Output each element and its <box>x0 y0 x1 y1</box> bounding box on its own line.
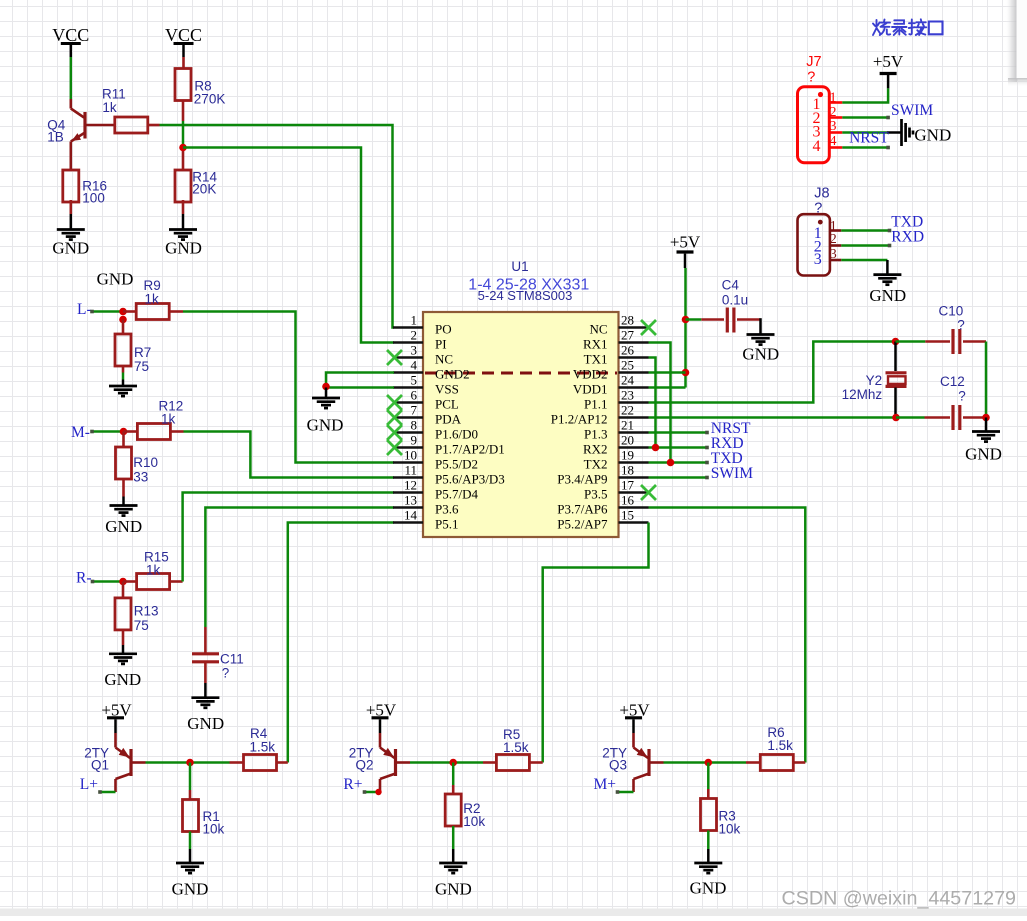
resistor R13 <box>115 598 131 630</box>
ground below R16 <box>70 214 73 230</box>
pin 24 VDD1 <box>619 386 649 389</box>
svg-text:P3.7/AP6: P3.7/AP6 <box>557 502 608 517</box>
pin 25 VDD2 <box>619 371 649 374</box>
svg-text:0.1u: 0.1u <box>722 293 748 308</box>
svg-text:P5.5/D2: P5.5/D2 <box>435 457 478 472</box>
svg-text:11: 11 <box>404 463 417 478</box>
junction RXD node <box>652 444 660 452</box>
base lead Q4 to R11 <box>85 124 115 127</box>
svg-text:+5V: +5V <box>873 52 904 71</box>
svg-text:P5.6/AP3/D3: P5.6/AP3/D3 <box>435 472 505 487</box>
bottom edge strip <box>0 909 1027 917</box>
svg-text:TX2: TX2 <box>584 457 608 472</box>
lead R4 left <box>230 761 244 764</box>
svg-text:10k: 10k <box>719 821 741 836</box>
lead R6 right <box>793 761 805 764</box>
junction +5V VDD2 node <box>682 369 690 377</box>
lead R2 top <box>452 785 455 794</box>
pin 5 VSS <box>393 386 423 389</box>
svg-text:R13: R13 <box>134 604 159 619</box>
pin 21 P1.3 <box>619 431 649 434</box>
ground below C11 <box>204 683 207 698</box>
wire R12 to U1 pin11 <box>184 432 395 478</box>
wire Q1 node to R1 <box>189 763 192 791</box>
ground J7 sideways <box>887 131 901 134</box>
wire VCC to Q4 collector <box>70 57 73 99</box>
wire pin22 to crystal bottom rail <box>649 416 897 419</box>
wire pin26 to RXD row <box>649 358 656 448</box>
svg-text:?: ? <box>222 666 230 681</box>
wire R- <box>93 580 124 583</box>
junction crystal bottom node <box>892 414 900 422</box>
pin 15 P5.2/AP7 <box>619 521 649 524</box>
base lead Q2 <box>396 761 411 764</box>
pin1 marker J7 <box>818 92 823 97</box>
resistor R11 <box>115 117 148 133</box>
svg-text:1.5k: 1.5k <box>250 739 276 754</box>
svg-text:GND: GND <box>914 125 951 144</box>
resistor R7 <box>115 334 131 366</box>
wire R11 to U1 pin1 <box>160 125 395 328</box>
resistor R5 <box>496 755 529 771</box>
svg-text:24: 24 <box>621 373 635 388</box>
junction Q1 node <box>186 759 194 767</box>
J7 pin lead 4 <box>829 146 842 149</box>
J7 pin lead 3 <box>829 131 842 134</box>
svg-text:2: 2 <box>411 328 418 343</box>
wire C10 to C12 <box>985 342 988 418</box>
wire J8 pin1 TXD <box>841 229 889 232</box>
svg-text:1k: 1k <box>145 291 160 306</box>
wire L- <box>92 310 123 313</box>
svg-text:22: 22 <box>621 403 634 418</box>
wire +5V to pin25 <box>649 371 686 374</box>
svg-text:P5.1: P5.1 <box>435 517 458 532</box>
wire crystal rail to C10 <box>896 340 926 343</box>
lead M- to R12 <box>124 430 138 433</box>
svg-text:GND: GND <box>172 880 209 899</box>
svg-text:GND: GND <box>435 880 472 899</box>
wire pin19 TXD <box>649 461 708 464</box>
lead R9 right <box>169 310 183 313</box>
svg-text:6: 6 <box>411 388 418 403</box>
pin 13 P3.6 <box>393 506 423 509</box>
resistor R16 <box>63 170 79 202</box>
no-connect X left <box>387 350 402 365</box>
ground below R14 <box>182 214 185 230</box>
wire J8 pin3 to ground <box>841 259 887 262</box>
wire Q3 base to R6 <box>664 761 747 764</box>
svg-text:23: 23 <box>621 388 634 403</box>
svg-text:NC: NC <box>435 352 453 367</box>
base lead Q3 <box>649 761 664 764</box>
svg-text:P1.6/D0: P1.6/D0 <box>435 427 478 442</box>
svg-text:12: 12 <box>404 478 417 493</box>
svg-text:PCL: PCL <box>435 397 459 412</box>
svg-text:GND: GND <box>307 416 344 435</box>
svg-text:3: 3 <box>814 251 822 268</box>
junction L- node <box>119 308 127 316</box>
junction +5V C4 node <box>682 316 690 324</box>
svg-text:CSDN @weixin_44571279: CSDN @weixin_44571279 <box>782 888 1017 910</box>
no-connect X left <box>387 410 402 425</box>
svg-text:NRST: NRST <box>849 130 889 147</box>
svg-text:Y2: Y2 <box>866 373 883 388</box>
wire pin23 to crystal rail <box>649 342 896 403</box>
svg-text:14: 14 <box>404 508 418 523</box>
svg-text:1k: 1k <box>102 100 117 115</box>
svg-text:P5.2/AP7: P5.2/AP7 <box>557 517 608 532</box>
svg-text:GND: GND <box>105 517 142 536</box>
wire to C4 <box>686 318 702 321</box>
svg-text:GND: GND <box>965 445 1002 464</box>
wire M- <box>92 430 124 433</box>
lead R6 left <box>746 761 760 764</box>
wire to C12 <box>896 416 925 419</box>
lead R14 bottom <box>182 200 185 214</box>
svg-text:?: ? <box>814 200 822 216</box>
lead R1 top <box>189 790 192 800</box>
top right panel <box>1005 0 1017 82</box>
J8 pin lead 3 <box>830 259 841 262</box>
junction TXD node <box>667 459 675 467</box>
junction Q2 node <box>449 759 457 767</box>
pin 22 P1.2/AP12 <box>619 416 649 419</box>
junction M- node <box>120 428 128 436</box>
lead R11 right <box>148 124 160 127</box>
svg-text:PO: PO <box>435 322 452 337</box>
svg-text:5-24 STM8S003: 5-24 STM8S003 <box>478 288 573 303</box>
svg-text:J8: J8 <box>814 186 829 202</box>
no-connect X right <box>641 320 656 335</box>
svg-text:GND: GND <box>869 286 906 305</box>
svg-text:15: 15 <box>621 508 634 523</box>
pin 20 RX2 <box>619 446 649 449</box>
lead VCC to R8 <box>182 57 185 69</box>
wire Q2 node to R2 <box>452 763 455 786</box>
svg-text:L-: L- <box>77 301 92 318</box>
svg-text:1.5k: 1.5k <box>503 740 529 755</box>
pin 28 NC <box>619 326 649 329</box>
wire +5V to pin24 <box>649 386 686 389</box>
svg-text:19: 19 <box>621 448 634 463</box>
svg-text:1.5k: 1.5k <box>767 738 793 753</box>
wire R15 to U1 pin12 <box>183 493 394 582</box>
svg-text:L+: L+ <box>80 776 98 793</box>
svg-text:5: 5 <box>411 373 418 388</box>
svg-text:9: 9 <box>411 433 418 448</box>
wire R9 to U1 pin10 <box>183 312 394 463</box>
resistor R9 <box>136 304 169 320</box>
wire U1 pin16 to R6 <box>649 508 806 763</box>
svg-text:P5.7/D4: P5.7/D4 <box>435 487 478 502</box>
pin 26 TX1 <box>619 356 649 359</box>
wire R+ stub <box>365 791 381 794</box>
J8 pin lead 1 <box>830 229 841 232</box>
svg-text:7: 7 <box>411 403 418 418</box>
svg-text:U1: U1 <box>511 259 528 274</box>
resistor R3 <box>701 799 717 831</box>
power +5V J7 <box>887 75 890 88</box>
svg-text:27: 27 <box>621 328 635 343</box>
svg-text:R+: R+ <box>343 776 362 793</box>
wire Q2 base to R5 <box>410 761 483 764</box>
junction R- node <box>119 578 127 586</box>
ground below C4 <box>759 318 762 334</box>
wire L+ stub <box>100 791 116 794</box>
lead to R10 <box>122 432 125 448</box>
wire J7 pin2 SWIM <box>842 116 888 119</box>
svg-text:VDD1: VDD1 <box>573 382 608 397</box>
svg-text:4: 4 <box>411 358 418 373</box>
pin 9 P1.7/AP2/D1 <box>393 446 423 449</box>
wire U1 pin15 to R5 <box>543 523 649 763</box>
ground below R13 <box>122 630 125 645</box>
svg-text:28: 28 <box>621 313 634 328</box>
junction Q3 node <box>705 759 713 767</box>
lead junction to R14 <box>182 149 185 170</box>
svg-text:10: 10 <box>404 448 417 463</box>
lead R4 right <box>277 761 288 764</box>
lead R5 right <box>529 761 542 764</box>
ground below R1 <box>189 832 192 850</box>
svg-text:8: 8 <box>411 418 418 433</box>
wire pin27 to TXD row <box>649 343 671 463</box>
wire Q3 node to R3 <box>707 763 710 790</box>
resistor R10 <box>116 447 132 479</box>
junction R8/R14 node <box>179 144 187 152</box>
connector J7 <box>798 87 830 163</box>
lead R8 bottom <box>182 101 185 122</box>
svg-text:SWIM: SWIM <box>891 102 933 119</box>
svg-text:P3.4/AP9: P3.4/AP9 <box>557 472 607 487</box>
junction C12 right node <box>982 414 990 422</box>
ground below R10 <box>122 479 125 497</box>
svg-text:?: ? <box>807 69 815 85</box>
svg-text:GND2: GND2 <box>435 367 470 382</box>
lead R- to R15 <box>123 580 137 583</box>
svg-text:P1.2/AP12: P1.2/AP12 <box>551 412 608 427</box>
svg-text:Q1: Q1 <box>91 758 109 773</box>
resistor R15 <box>137 574 170 590</box>
svg-text:20: 20 <box>621 433 634 448</box>
lead L- to R9 <box>123 310 136 313</box>
svg-text:75: 75 <box>134 359 149 374</box>
pin 10 P5.5/D2 <box>393 461 423 464</box>
svg-text:C12: C12 <box>940 374 965 389</box>
pin 2 PI <box>393 341 423 344</box>
svg-text:100: 100 <box>82 190 105 205</box>
J8 pin lead 2 <box>830 244 841 247</box>
svg-text:PDA: PDA <box>435 412 462 427</box>
wire J8 pin2 RXD <box>841 244 889 247</box>
pin 17 P3.5 <box>619 491 649 494</box>
svg-text:GND: GND <box>187 714 224 733</box>
base lead Q1 <box>131 761 146 764</box>
pin 23 P1.1 <box>619 401 649 404</box>
svg-text:P3.6: P3.6 <box>435 502 459 517</box>
svg-text:Q3: Q3 <box>609 758 627 773</box>
wire R8 to junction <box>182 121 185 149</box>
pin 4 GND2 <box>393 371 423 374</box>
ground below R7 <box>122 366 125 373</box>
svg-text:18: 18 <box>621 463 634 478</box>
lead to R7 <box>122 320 125 335</box>
svg-text:J7: J7 <box>806 54 821 70</box>
svg-text:SWIM: SWIM <box>711 465 753 482</box>
wire J7 pin3 to ground <box>842 131 886 134</box>
lead R15 right <box>170 580 183 583</box>
capacitor C4 <box>701 318 724 321</box>
svg-text:M-: M- <box>71 424 90 441</box>
pin 27 RX1 <box>619 341 649 344</box>
svg-text:4: 4 <box>813 138 821 155</box>
pin 11 P5.6/AP3/D3 <box>393 476 423 479</box>
svg-text:270K: 270K <box>194 92 226 107</box>
svg-text:GND: GND <box>97 270 134 289</box>
svg-text:GND: GND <box>690 879 727 898</box>
junction crystal top node <box>892 338 900 346</box>
no-connect X left <box>387 425 402 440</box>
wire junction to U1 pin2 <box>183 148 394 343</box>
connector J8 <box>798 214 830 275</box>
crystal Y2 <box>894 342 897 372</box>
svg-text:P1.1: P1.1 <box>584 397 607 412</box>
svg-text:20K: 20K <box>192 181 216 196</box>
J7 pin lead 1 <box>829 101 842 104</box>
ground below R2 <box>452 826 455 849</box>
svg-text:+5V: +5V <box>670 233 701 252</box>
wire M+ stub <box>618 791 634 794</box>
lead R3 top <box>707 789 710 799</box>
resistor R1 <box>183 800 199 832</box>
dashed line GND2-VDD2 <box>425 372 617 375</box>
svg-text:16: 16 <box>621 493 635 508</box>
junction ground node <box>322 383 330 391</box>
svg-text:P1.3: P1.3 <box>584 427 607 442</box>
svg-text:10k: 10k <box>203 822 225 837</box>
svg-text:17: 17 <box>621 478 635 493</box>
svg-text:GND: GND <box>104 670 141 689</box>
capacitor C10 <box>925 340 950 343</box>
svg-text:?: ? <box>957 318 965 333</box>
title burn interface <box>873 19 943 35</box>
wire U1 pin13 to C11 <box>205 508 394 628</box>
pin 14 P5.1 <box>393 521 423 524</box>
pin1 marker J8 <box>818 220 823 225</box>
wire pin21 NRST <box>649 431 708 434</box>
pin 16 P3.7/AP6 <box>619 506 649 509</box>
capacitor C11 <box>204 627 207 654</box>
svg-text:VSS: VSS <box>435 382 459 397</box>
svg-text:1B: 1B <box>47 130 64 145</box>
resistor R8 <box>175 69 191 101</box>
pin 7 PDA <box>393 416 423 419</box>
svg-text:26: 26 <box>621 343 635 358</box>
IC U1 body <box>423 312 619 537</box>
svg-text:VDD2: VDD2 <box>573 367 608 382</box>
svg-text:R7: R7 <box>134 345 151 360</box>
wire J7 pin1 to +5V <box>842 88 888 102</box>
resistor R14 <box>175 170 191 202</box>
svg-text:R-: R- <box>76 570 92 587</box>
no-connect X left <box>387 395 402 410</box>
svg-text:12Mhz: 12Mhz <box>842 387 883 402</box>
pin 1 PO <box>393 326 423 329</box>
svg-text:P1.7/AP2/D1: P1.7/AP2/D1 <box>435 442 505 457</box>
svg-text:PI: PI <box>435 337 447 352</box>
svg-text:C4: C4 <box>722 277 740 292</box>
svg-text:GND: GND <box>742 345 779 364</box>
svg-text:1: 1 <box>411 313 418 328</box>
svg-text:21: 21 <box>621 418 634 433</box>
svg-text:1k: 1k <box>161 412 176 427</box>
J7 pin lead 2 <box>829 116 842 119</box>
svg-text:25: 25 <box>621 358 634 373</box>
wire +5V rail <box>684 268 687 388</box>
pin 19 TX2 <box>619 461 649 464</box>
wire U1 pins4/5 to ground <box>326 373 394 388</box>
svg-text:TX1: TX1 <box>584 352 608 367</box>
no-connect X left <box>387 440 402 455</box>
svg-text:GND: GND <box>52 239 89 258</box>
svg-text:1k: 1k <box>146 563 161 578</box>
wire Q1 base to R4 <box>146 761 230 764</box>
svg-text:RXD: RXD <box>891 228 924 245</box>
resistor R2 <box>445 794 461 826</box>
pin 3 NC <box>393 356 423 359</box>
transistor Q4 <box>71 99 85 170</box>
pin 8 P1.6/D0 <box>393 431 423 434</box>
resistor R12 <box>137 424 170 440</box>
svg-text:GND: GND <box>165 239 202 258</box>
wire pin18 SWIM <box>649 476 708 479</box>
transistor Q3 2TY <box>634 733 650 792</box>
pin 12 P5.7/D4 <box>393 491 423 494</box>
pin 18 P3.4/AP9 <box>619 476 649 479</box>
svg-text:Q2: Q2 <box>355 758 373 773</box>
transistor Q2 2TY <box>380 733 396 792</box>
resistor R6 <box>760 755 793 771</box>
svg-text:C11: C11 <box>220 652 244 667</box>
no-connect X right <box>641 485 656 500</box>
svg-text:75: 75 <box>134 618 149 633</box>
ground J8 <box>886 260 889 275</box>
svg-text:10k: 10k <box>463 814 485 829</box>
svg-text:R10: R10 <box>133 455 158 470</box>
lead to R13 <box>122 582 125 598</box>
lead R5 left <box>483 761 496 764</box>
pin 6 PCL <box>393 401 423 404</box>
ground U1 VSS <box>325 388 328 399</box>
ground below C12 <box>985 418 988 432</box>
transistor Q1 2TY <box>116 733 132 792</box>
svg-text:13: 13 <box>404 493 417 508</box>
svg-text:3: 3 <box>411 343 418 358</box>
wire pin20 RXD <box>649 446 708 449</box>
svg-text:33: 33 <box>133 469 148 484</box>
resistor R4 <box>244 755 277 771</box>
svg-text:RX1: RX1 <box>583 337 608 352</box>
svg-text:M+: M+ <box>593 776 616 793</box>
svg-text:C10: C10 <box>939 303 964 318</box>
lead R12 right <box>170 430 183 433</box>
svg-text:?: ? <box>958 388 966 403</box>
svg-text:NC: NC <box>589 322 607 337</box>
capacitor C12 <box>925 416 951 419</box>
ground below R3 <box>707 831 710 850</box>
wire J7 pin4 NRST <box>842 146 888 149</box>
